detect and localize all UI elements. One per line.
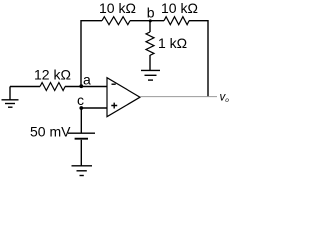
svg-text:50 mV: 50 mV: [30, 124, 71, 140]
svg-text:10 kΩ: 10 kΩ: [99, 0, 136, 16]
svg-text:12 kΩ: 12 kΩ: [34, 67, 71, 83]
voltage source V1 50 mV (battery): [68, 133, 95, 139]
wire 1 kOhm bottom lead to ground: [149, 55, 151, 70]
wire node c to op-amp non-inverting input: [81, 107, 107, 109]
node b: [149, 19, 152, 22]
wire between R1 and R2 through node b: [130, 20, 164, 22]
wire node c down to source: [80, 108, 82, 133]
resistor R2 10 kOhm (right top): [164, 17, 189, 25]
ground under 1 kOhm: [141, 70, 160, 80]
svg-text:1 kΩ: 1 kΩ: [158, 35, 187, 51]
resistor R1 10 kOhm (left top): [102, 17, 130, 25]
node a: [79, 84, 83, 88]
op-amp minus sign: [112, 83, 116, 85]
op-amp U1: [107, 78, 140, 117]
node c: [79, 106, 83, 110]
wire top right corner down to output: [189, 21, 208, 97]
svg-text:a: a: [83, 72, 91, 88]
svg-text:10 kΩ: 10 kΩ: [161, 0, 198, 16]
svg-text:b: b: [147, 5, 155, 21]
resistor R3 1 kOhm (vertical): [146, 32, 154, 55]
wire R4 to op-amp inverting input through node a: [65, 86, 107, 88]
ground under source: [72, 166, 93, 176]
wire source to bottom ground: [80, 140, 82, 166]
svg-text:c: c: [77, 92, 84, 108]
wire output (apex to vo terminal): [140, 96, 217, 98]
wire left ground to R4: [10, 86, 40, 88]
resistor R4 12 kOhm: [40, 83, 65, 91]
ground left (input side): [2, 87, 19, 108]
wire 1 kOhm top lead from node b: [149, 21, 151, 32]
wire top feedback horizontal (a up to top rail): [81, 21, 102, 86]
svg-text:vo: vo: [220, 92, 230, 105]
op-amp plus sign: [111, 103, 117, 109]
